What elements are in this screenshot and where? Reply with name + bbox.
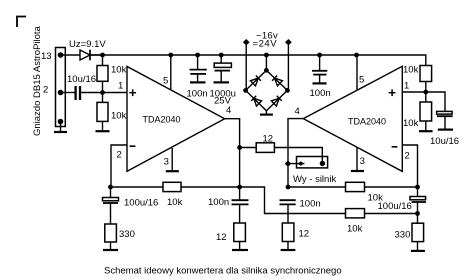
pin 4 label op2 [295, 106, 300, 117]
node rail 100n [195, 53, 200, 58]
capacitor C9 100u/16 left [103, 187, 119, 224]
wire op2 +input [402, 92, 445, 111]
pin 13 node [58, 52, 64, 58]
node op2 out motor [286, 161, 291, 166]
wire top supply rail [90, 55, 426, 66]
label 10u/16 C5 [430, 136, 459, 147]
svg-text:2: 2 [405, 151, 410, 162]
pin 1 label op2 [404, 81, 409, 92]
capacitor C2 100n rail [190, 55, 207, 82]
svg-text:1: 1 [118, 81, 123, 92]
node rail-10k [100, 53, 105, 58]
label Gniazdo DB15 AstroPilota [32, 25, 43, 136]
resistor R11 330 right [412, 223, 424, 251]
ground C4 [313, 82, 327, 84]
capacitor C4 100n right rail [312, 55, 327, 83]
resistor R5 12 horizontal [240, 143, 323, 164]
label 100u/16 C8 [378, 201, 412, 212]
svg-text:10k: 10k [111, 65, 127, 76]
capacitor C8 100u/16 right [410, 187, 426, 223]
motor pin right [320, 161, 325, 166]
caption [104, 266, 342, 277]
ground connector [54, 122, 67, 133]
bridge rectifier B1 [246, 70, 288, 110]
svg-text:13: 13 [41, 51, 52, 62]
svg-text:100n: 100n [208, 197, 229, 208]
resistor R6 12 zobel mid [282, 223, 294, 250]
svg-text:330: 330 [395, 230, 411, 241]
pin 2 label [43, 85, 48, 96]
label - op2 [392, 146, 398, 148]
label =24V [253, 39, 278, 50]
ground R12 [103, 249, 118, 251]
wire AC left down [245, 45, 247, 90]
pin 3 op1 [171, 148, 173, 171]
ground C3 [214, 81, 230, 83]
op-amp U2 TDA2040 [303, 66, 402, 171]
svg-text:3: 3 [164, 157, 169, 168]
resistor R12 330 left [105, 224, 117, 250]
svg-text:100n: 100n [300, 199, 321, 210]
pin 1 label op1 [118, 81, 123, 92]
node lower link right [415, 211, 420, 216]
motor terminal diamond on output [285, 161, 292, 166]
motor connector Wy-silnik [297, 157, 328, 168]
connector bottom pin node [58, 119, 64, 125]
label 10k R4 [403, 118, 419, 129]
resistor R7 12 zobel left [234, 223, 246, 250]
capacitor C5 10u/16 right [437, 111, 453, 129]
pin 2 node [58, 90, 64, 96]
resistor R2 10k lower left [97, 93, 108, 132]
zener diode D1 Uz=9.1V [80, 50, 90, 61]
label ~16v [256, 31, 278, 42]
label 100n C2 [187, 89, 208, 100]
label 10k R1 [111, 65, 127, 76]
pin 5 op1 [170, 55, 172, 90]
ground R4 [419, 130, 433, 132]
wire op2 output [288, 119, 303, 187]
pin 3 op2 [356, 148, 358, 171]
svg-text:2: 2 [117, 150, 122, 161]
node op1 output [237, 145, 242, 150]
svg-text:100u/16: 100u/16 [124, 198, 158, 209]
connector J1 Gniazdo DB15 [56, 48, 66, 127]
pin 3 label op2 [360, 156, 365, 167]
terminal AC right [285, 39, 292, 45]
svg-text:100n: 100n [187, 89, 208, 100]
label + op2 [389, 89, 396, 96]
label 1000u [210, 89, 236, 100]
label 12 R7 [216, 232, 227, 243]
wire pin13 to diode [61, 54, 103, 56]
svg-text:25V: 25V [214, 96, 232, 107]
svg-text:12: 12 [263, 134, 274, 145]
label Wy - silnik [293, 174, 336, 185]
svg-text:TDA2040: TDA2040 [348, 117, 386, 127]
pin 13 label [41, 51, 52, 62]
resistor R1 10k upper left [97, 55, 108, 93]
resistor R3 10k top right [420, 66, 432, 93]
ground C5 [438, 129, 453, 131]
resistor R9 10k lower link [346, 209, 418, 218]
capacitor C6 100n zobel mid [280, 200, 296, 223]
node rail 100n right [317, 53, 322, 58]
svg-text:1: 1 [404, 81, 409, 92]
node zobel left [237, 185, 242, 190]
label 25V [214, 96, 232, 107]
svg-text:=24V: =24V [253, 39, 278, 50]
svg-text:12: 12 [216, 232, 227, 243]
corner mark [17, 17, 26, 28]
terminal AC left [243, 39, 250, 45]
resistor R10 10k feedback op2 [288, 182, 418, 191]
bridge diode bottom-right [271, 96, 281, 106]
pin 2 label op2 [405, 151, 410, 162]
svg-text:Gniazdo DB15 AstroPilota: Gniazdo DB15 AstroPilota [32, 25, 43, 136]
svg-text:5: 5 [163, 76, 168, 87]
label 10k R9 [347, 224, 363, 235]
svg-text:4: 4 [295, 106, 300, 117]
node rail pin5 op1 [168, 53, 173, 58]
ground R11 [411, 250, 425, 252]
resistor R8 10k feedback op1 [111, 182, 346, 213]
wire zobel left [239, 148, 241, 201]
svg-text:4: 4 [226, 105, 231, 116]
label TDA2040 U1 [143, 115, 181, 125]
bridge diode bottom-left [251, 96, 261, 106]
svg-text:Schemat ideowy konwertera dla: Schemat ideowy konwertera dla silnika sy… [104, 266, 342, 277]
svg-text:10k: 10k [403, 118, 419, 129]
pin 4 label op1 [226, 105, 231, 116]
label 10u/16 [67, 74, 96, 85]
node zobel mid top [286, 185, 291, 190]
node rail pin5 op2 [354, 53, 359, 58]
pin 5 label op1 [163, 76, 168, 87]
op-amp U1 TDA2040 [127, 66, 225, 171]
label 10k R3 [403, 65, 419, 76]
svg-text:Wy - silnik: Wy - silnik [293, 174, 336, 185]
capacitor C3 1000u 25V [214, 55, 231, 82]
capacitor C7 100n zobel left [232, 200, 249, 223]
node bridge left [243, 88, 248, 93]
svg-text:10u/16: 10u/16 [67, 74, 96, 85]
label 10k R8 [167, 197, 183, 208]
pin 3 label op1 [164, 157, 169, 168]
svg-text:Uz=9.1V: Uz=9.1V [69, 39, 106, 50]
node op2 +input [423, 90, 428, 95]
svg-text:10k: 10k [111, 111, 127, 122]
svg-text:330: 330 [119, 229, 135, 240]
wire AC right down [287, 45, 289, 90]
motor pin left diamond [298, 161, 304, 166]
bridge diode top-left [250, 76, 260, 86]
node op1 feedback [108, 185, 113, 190]
pin 5 op2 [356, 55, 358, 90]
motor wire left [288, 163, 305, 165]
label 100u/16 C9 [124, 198, 158, 209]
bridge diode top-right [272, 76, 282, 86]
label 10k R2 [111, 111, 127, 122]
svg-text:3: 3 [360, 156, 365, 167]
ground bridge [260, 111, 273, 115]
label 100n C7 [208, 197, 229, 208]
svg-text:TDA2040: TDA2040 [143, 115, 181, 125]
label + op1 [129, 89, 136, 96]
label 100n C6 [300, 199, 321, 210]
svg-text:100n: 100n [310, 88, 331, 99]
label Uz=9.1V [69, 39, 106, 50]
resistor R4 10k right lower [420, 92, 432, 131]
label 12 R5 [263, 134, 274, 145]
label 10k R10 [368, 193, 384, 204]
svg-text:10k: 10k [167, 197, 183, 208]
svg-text:10k: 10k [347, 224, 363, 235]
pin 2 stub op1 [111, 145, 127, 187]
node bridge right [285, 88, 290, 93]
label - op1 [130, 145, 136, 147]
node input op1 [100, 90, 105, 95]
node bridge top [264, 68, 269, 73]
svg-text:5: 5 [359, 75, 364, 86]
svg-text:2: 2 [43, 85, 48, 96]
svg-text:10k: 10k [403, 65, 419, 76]
label 100n C4 [310, 88, 331, 99]
ground pin3 op2 [351, 170, 364, 172]
ground R7 [232, 249, 248, 251]
node op2 feedback [415, 185, 420, 190]
pin 2 label op1 [117, 150, 122, 161]
ground R6 [281, 249, 296, 251]
label 330 R11 [395, 230, 411, 241]
node rail 1000u [219, 53, 224, 58]
pin 2 stub op2 [402, 145, 417, 187]
node rail bridge [264, 53, 269, 58]
pin 5 label op2 [359, 75, 364, 86]
capacitor 10u/16 input [61, 86, 128, 100]
wire op1 output [225, 119, 240, 148]
ground pin3 op1 [166, 170, 179, 172]
wire bridge top [265, 55, 267, 70]
ground C2 [190, 81, 206, 83]
label 330 R12 [119, 229, 135, 240]
ground R2 [96, 130, 110, 132]
svg-text:100u/16: 100u/16 [378, 201, 412, 212]
svg-text:10u/16: 10u/16 [430, 136, 459, 147]
label 12 R6 [299, 229, 310, 240]
label TDA2040 U2 [348, 117, 386, 127]
svg-text:12: 12 [299, 229, 310, 240]
